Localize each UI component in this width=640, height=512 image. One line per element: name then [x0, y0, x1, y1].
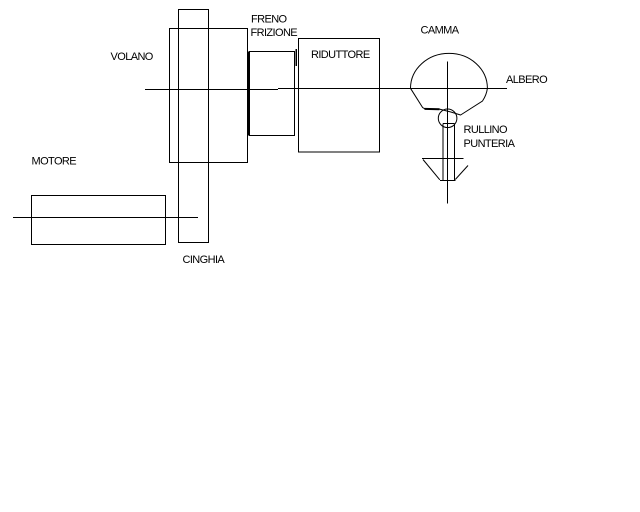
arrow head right slant: [455, 166, 468, 180]
roller RULLINO circle: [438, 109, 457, 128]
wire motor axis: [13, 217, 198, 219]
wire main shaft axis left segment: [145, 89, 278, 91]
reducer RIDUTTORE box: [299, 39, 380, 153]
stray tick at clutch output: [295, 49, 297, 66]
cam CAMMA profile: [411, 53, 488, 115]
brake-clutch thick left edge: [248, 52, 250, 136]
wire cam vertical centerline: [447, 62, 449, 204]
arrow head bottom bar: [440, 180, 456, 182]
brake-clutch FRENO FRIZIONE box: [250, 52, 295, 136]
svg-text:FRIZIONE: FRIZIONE: [251, 27, 298, 39]
arrow head left slant: [423, 160, 440, 180]
svg-text:CINGHIA: CINGHIA: [183, 254, 226, 266]
wire main shaft axis right segment: [278, 88, 507, 90]
belt CINGHIA box: [179, 10, 209, 243]
svg-text:VOLANO: VOLANO: [111, 51, 154, 63]
motor MOTORE box: [32, 196, 166, 245]
svg-text:PUNTERIA: PUNTERIA: [464, 138, 516, 150]
arrow head top bar: [422, 158, 464, 160]
tappet stem top bar: [443, 123, 455, 125]
svg-text:RULLINO: RULLINO: [464, 124, 509, 136]
cam bottom flat thick stroke: [425, 108, 440, 110]
svg-text:ALBERO: ALBERO: [506, 74, 548, 86]
svg-text:CAMMA: CAMMA: [421, 25, 460, 37]
svg-text:RIDUTTORE: RIDUTTORE: [311, 49, 370, 61]
svg-text:FRENO: FRENO: [251, 14, 288, 26]
flywheel VOLANO box: [170, 29, 248, 163]
svg-text:MOTORE: MOTORE: [32, 156, 77, 168]
tappet PUNTERIA stem right line: [454, 124, 456, 181]
tappet PUNTERIA stem left line: [442, 124, 444, 181]
